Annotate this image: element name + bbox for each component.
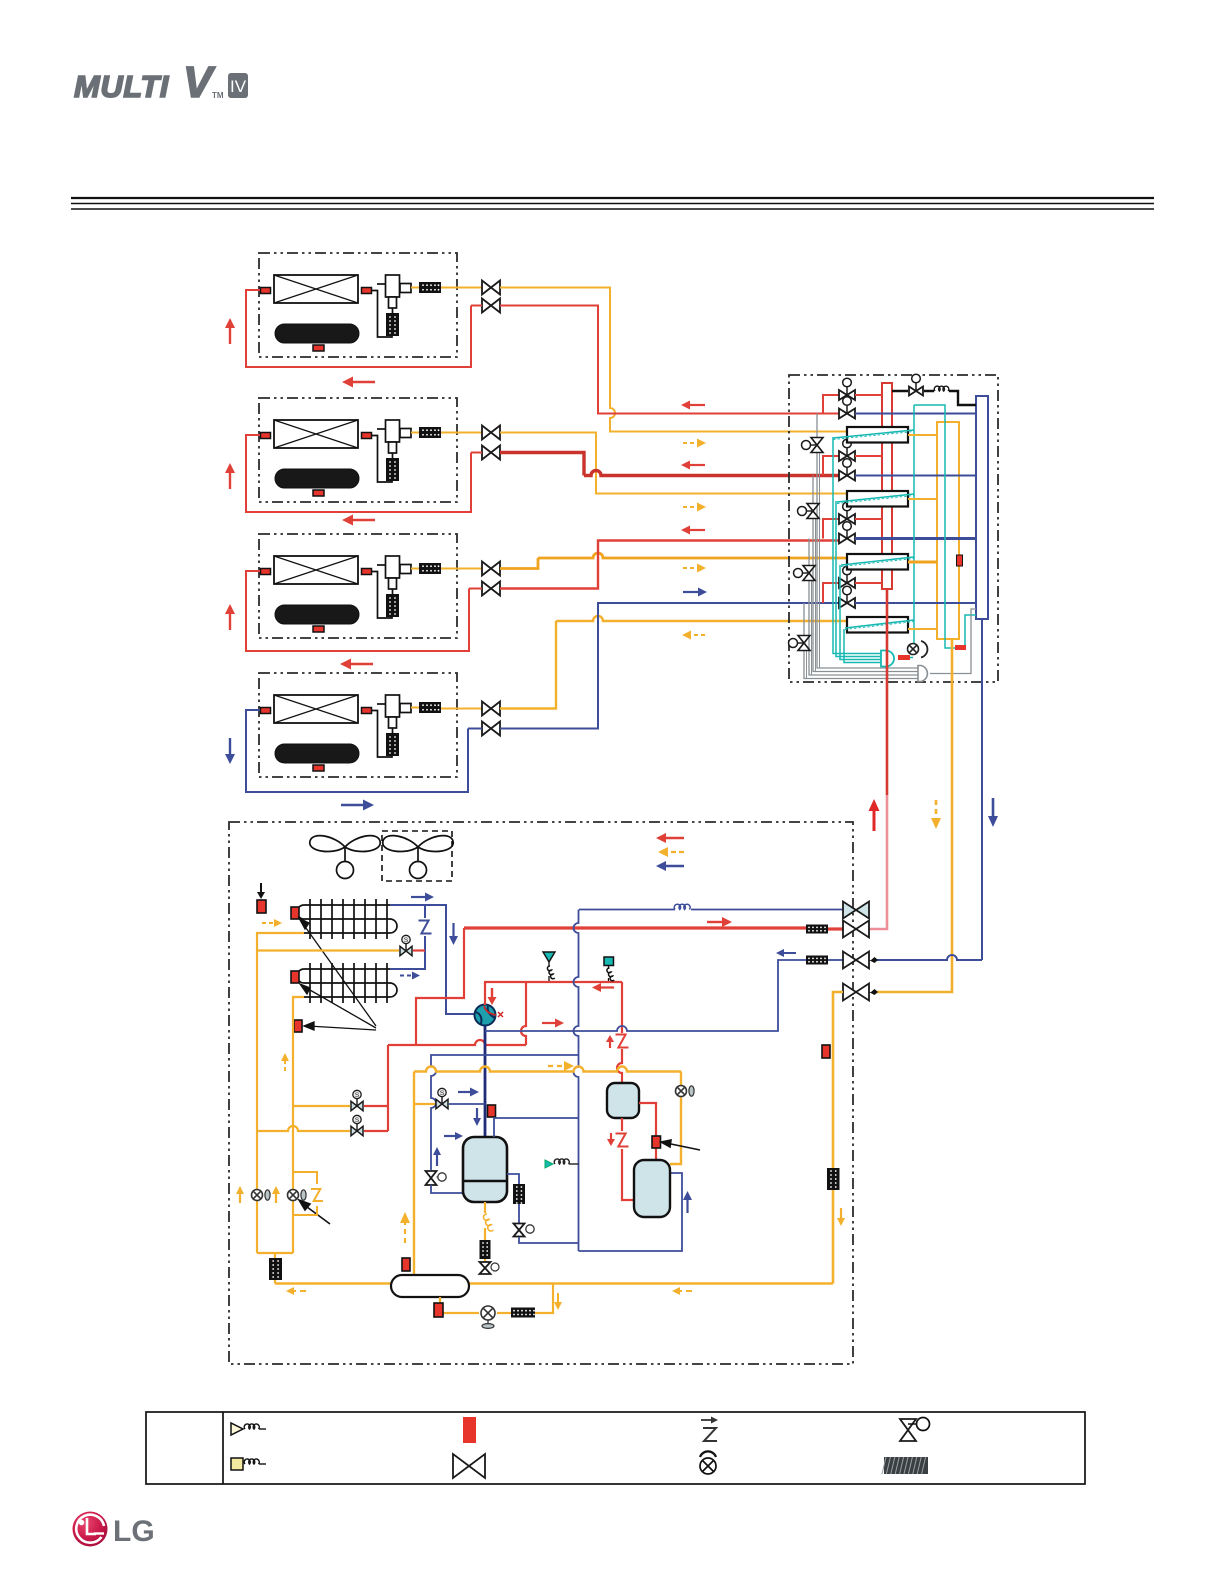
liquid trunk (yellow header rect) bbox=[937, 422, 959, 639]
HR branch 2 pipe valve to red trunk bbox=[855, 455, 882, 457]
flow arrow red left (line1) bbox=[681, 401, 705, 410]
oil separator (horizontal tank) bbox=[391, 1275, 469, 1297]
unit4 flow arrow down bbox=[225, 738, 235, 764]
suction pipe 4way to compressor bbox=[484, 1026, 487, 1138]
unit1 liquid service valve bbox=[482, 281, 500, 295]
navy bottom run to right tank bbox=[579, 1173, 683, 1251]
unit3 flow arrow up bbox=[225, 604, 235, 630]
HR top motor valve on black pipe bbox=[909, 374, 923, 395]
sensor at coil upper bbox=[291, 907, 299, 919]
yellow trunk drop to outdoor service valve bbox=[875, 639, 952, 992]
unit1 gas pipe (red) left loop bbox=[246, 290, 471, 367]
unit4 gas service valve bbox=[482, 722, 500, 736]
HR subcool HX 3 teal refrigerant path bbox=[841, 557, 914, 565]
orange riser right to subcool tank bbox=[670, 1072, 681, 1165]
flow arrow blue right above coil bbox=[411, 893, 434, 902]
low pressure trunk (navy header rect) bbox=[976, 396, 988, 619]
flow arrow orange down on drop bbox=[837, 1208, 845, 1226]
svg-text:S: S bbox=[440, 1090, 445, 1097]
strainer on navy service line bbox=[806, 956, 828, 965]
legend arrow navy (heating cycle) bbox=[656, 861, 684, 871]
HR branch 3 red stub to high-pressure valve bbox=[823, 519, 839, 539]
flow arrow navy right above solenoid bbox=[458, 1088, 479, 1097]
legend heater hatched block bbox=[882, 1457, 928, 1474]
strainer on compressor right line bbox=[513, 1184, 525, 1204]
oil separator bottom loop bbox=[440, 1284, 553, 1314]
unit2 flow arrow up bbox=[225, 463, 235, 489]
unit2 gas service valve bbox=[482, 446, 500, 460]
oil solenoid valve lower bbox=[257, 1126, 350, 1131]
triple horizontal rule bbox=[71, 198, 1154, 209]
capillary Z line to coil lower bbox=[390, 905, 425, 969]
unit2 gas pipe valve to HR (thick) bbox=[500, 453, 839, 476]
HR branch 3 high pressure switching valve bbox=[839, 502, 855, 524]
leader arrow to column B port bbox=[299, 1200, 330, 1224]
service port on column A bbox=[252, 1190, 263, 1201]
outdoor fan 1 bbox=[310, 836, 380, 879]
red branch vertical with jump bbox=[521, 982, 526, 1045]
legend check valve with capillary bbox=[231, 1423, 243, 1435]
service port on orange riser bbox=[676, 1086, 687, 1097]
red trunk flow arrow up bbox=[869, 799, 880, 831]
strainer under receiver columns bbox=[274, 1253, 276, 1258]
red trunk drop to outdoor service valve bbox=[886, 589, 889, 795]
navy pipe coil upper to four-way valve bbox=[390, 905, 475, 1014]
red discharge header pipes bbox=[416, 928, 464, 1045]
service valve yellow liquid bbox=[843, 984, 869, 1001]
HR branch 4 red stub to high-pressure valve bbox=[823, 583, 839, 603]
HR branch 1 red stub to high-pressure valve bbox=[823, 395, 839, 414]
oil equalize navy line upper with coil bbox=[579, 909, 843, 911]
HR branch 1 pipe valve to red trunk bbox=[855, 394, 882, 396]
unit1 flow arrow left bbox=[342, 377, 375, 388]
sensor on yellow drop bbox=[822, 1045, 830, 1058]
legend capillary Z with arrow bbox=[701, 1417, 718, 1424]
high pressure trunk (red header rect) bbox=[882, 383, 892, 589]
HR branch 4 pipe valve to red trunk bbox=[855, 582, 882, 584]
unit1 gas service valve bbox=[482, 299, 500, 313]
HR branch 1 gray control drop line bbox=[817, 414, 918, 669]
legend arrow red (cooling cycle) bbox=[656, 833, 684, 843]
outdoor air temp sensor bbox=[257, 900, 266, 913]
flow arrow red right to HR bbox=[707, 917, 732, 927]
strainer on bottom loop bbox=[511, 1308, 535, 1318]
indoor unit 4 (fan coil unit) bbox=[259, 673, 457, 777]
IV badge bbox=[228, 73, 248, 98]
HR branch 2 low pressure switching valve bbox=[839, 459, 855, 481]
legend valve bowtie bbox=[453, 1454, 485, 1478]
HR branch 4 control valve bbox=[789, 636, 811, 651]
HR branch 4 pipe valve to navy trunk bbox=[855, 602, 976, 604]
yellow pipes HX to liquid trunk bbox=[908, 435, 937, 629]
air flow arrow black down bbox=[257, 883, 265, 899]
sensor near liquid header bbox=[294, 1020, 302, 1032]
yellow trunk flow arrow down (dashed) bbox=[931, 800, 941, 829]
coil on black pipe bbox=[934, 386, 949, 391]
compressor bbox=[463, 1137, 507, 1202]
red drop to oil solenoids bbox=[387, 1045, 389, 1131]
flow arrow red up at Z bbox=[606, 1035, 614, 1048]
flow arrow navy down on suction bbox=[473, 1108, 481, 1126]
unit1 liquid pipe valve to HR bbox=[500, 288, 847, 432]
legend fan circle-x with cap bbox=[700, 1451, 716, 1457]
compressor oil drain with coil strainer valve bbox=[484, 1202, 486, 1213]
flow arrow blue dashed right below bbox=[400, 972, 420, 980]
HR branch 2 high pressure switching valve bbox=[839, 439, 855, 461]
unit4 flow arrow right bbox=[341, 800, 374, 811]
liquid receiver header left (yellow column B) bbox=[257, 997, 304, 1253]
yellow thick pipe HX3 to liquid trunk bbox=[908, 561, 937, 564]
flow arrow navy up right of tank bbox=[683, 1191, 692, 1213]
injection solenoid valve to compressor bbox=[414, 1103, 435, 1105]
gray gate output to navy trunk bbox=[930, 609, 976, 674]
unit1 liquid pipe (yellow) to HR unit bbox=[441, 287, 482, 289]
indoor unit 3 (fan coil unit) bbox=[259, 534, 457, 638]
four-way valve bbox=[475, 1005, 504, 1026]
dashed orange arrow up beside drop bbox=[400, 1212, 410, 1243]
HR branch 3 gray control drop line bbox=[809, 539, 918, 676]
high pressure sensor (triangle) on discharge bbox=[543, 952, 555, 966]
sensor on teal output bbox=[898, 655, 910, 660]
sensor at separator bottom bbox=[434, 1303, 443, 1317]
unit3 gas service valve bbox=[482, 582, 500, 596]
sensor on yellow trunk bbox=[957, 555, 963, 566]
relief bypass with Z on column B bbox=[293, 1172, 317, 1215]
flow arrow orange down at manifold tee bbox=[554, 1293, 562, 1310]
subcool plate HX (upper small tank) bbox=[607, 1083, 639, 1118]
HR branch 4 high pressure switching valve bbox=[839, 566, 855, 588]
liquid receiver header left (yellow column A) bbox=[257, 933, 304, 1253]
HR subcool HX 2 teal refrigerant path bbox=[837, 494, 914, 502]
compressor right oil circuit bbox=[507, 1174, 519, 1184]
orange liquid main horizontal bbox=[414, 1067, 681, 1072]
main red pipe to service valve bbox=[464, 926, 806, 929]
yellow pipe valve left drop to manifold bbox=[833, 992, 843, 1284]
strainer on red service line bbox=[806, 925, 828, 934]
defrost solenoid valve bbox=[400, 935, 412, 955]
svg-text:MULTI: MULTI bbox=[74, 69, 170, 104]
legend strainer square with capillary bbox=[231, 1458, 243, 1470]
flow arrow red left (line2) bbox=[681, 461, 705, 470]
svg-text:S: S bbox=[355, 1117, 360, 1124]
legend box bbox=[146, 1412, 1085, 1484]
HR branch 1 low pressure switching valve bbox=[839, 397, 855, 419]
legend arrow orange dashed bbox=[658, 847, 684, 857]
unit1 flow arrow up bbox=[225, 318, 235, 344]
unit4 liquid service valve bbox=[482, 702, 500, 716]
red pipe plate HX right to receiver bbox=[639, 1103, 656, 1160]
gray control bus AND gate bbox=[918, 666, 927, 682]
flow arrow red down above 4way bbox=[488, 988, 497, 1005]
dashed orange arrow up beside column B bbox=[281, 1053, 289, 1071]
teal right header risers bbox=[913, 405, 915, 643]
svg-text:TM: TM bbox=[212, 91, 224, 100]
orange drop to oil separator bbox=[413, 1072, 415, 1278]
indoor unit 2 (fan coil unit) bbox=[259, 398, 457, 502]
sensor on teal bottom line bbox=[955, 645, 966, 650]
navy branch to accumulator circuit bbox=[431, 1055, 579, 1170]
red pipe plate HX bottom with Z bbox=[622, 1118, 634, 1200]
receiver tank (right) bbox=[634, 1160, 670, 1217]
unit1 gas pipe valve to HR bbox=[500, 306, 839, 414]
service valve liquid-gas (light blue filled) bbox=[843, 902, 869, 919]
service valve red line bbox=[843, 921, 869, 938]
black pipe red trunk to navy trunk with valve and coil bbox=[892, 391, 976, 405]
HR branch 4 low pressure switching valve bbox=[839, 586, 855, 608]
navy vertical main left header bbox=[574, 910, 579, 1252]
HR branch 3 pipe valve to red trunk bbox=[855, 518, 882, 520]
indoor unit 1 (fan coil unit) bbox=[259, 253, 457, 357]
HR branch 2 pipe valve to navy trunk bbox=[855, 475, 976, 477]
unit3 flow arrow left bbox=[340, 659, 373, 670]
HR branch 1 pipe valve to navy trunk bbox=[855, 413, 976, 415]
HR branch 2 red stub to high-pressure valve bbox=[823, 456, 839, 476]
bottom yellow oil return manifold bbox=[275, 1282, 833, 1284]
flow arrow navy left near service valve bbox=[776, 949, 796, 957]
teal junction gate bbox=[881, 651, 894, 667]
HR branch 3 control valve bbox=[794, 566, 816, 581]
flow arrow blue right (line4) bbox=[683, 588, 707, 597]
legend valve with circle bbox=[900, 1419, 916, 1441]
flow arrow red down at Z2 bbox=[607, 1133, 615, 1146]
HR branch 1 high pressure switching valve bbox=[839, 378, 855, 400]
outdoor heat exchanger coil upper bbox=[297, 899, 397, 939]
outdoor unit dash-dot enclosure bbox=[229, 822, 853, 1364]
teal capillary risers to AND junction bbox=[833, 437, 881, 663]
suction line sensor bbox=[488, 1105, 496, 1117]
unit3 gas pipe valve to HR bbox=[500, 541, 839, 589]
HR branch 2 control valve bbox=[798, 504, 820, 519]
red pipe to subcool circuit with Z bbox=[617, 982, 622, 1083]
navy trunk flow arrow down bbox=[988, 798, 998, 827]
outdoor fan 2 (optional, dashed box) bbox=[382, 831, 452, 881]
HR subcool HX 1 teal refrigerant path bbox=[833, 430, 914, 438]
HR branch 1 control valve bbox=[802, 438, 824, 453]
oil drain valve circle-x bbox=[481, 1306, 495, 1320]
sensor on orange drop bbox=[402, 1258, 410, 1271]
legend sensor red rect bbox=[463, 1417, 476, 1443]
service port on column B bbox=[288, 1190, 299, 1201]
HR subcool heat exchanger 3 bbox=[847, 554, 908, 570]
navy trunk drop to outdoor service valve bbox=[875, 619, 982, 960]
HR subcool heat exchanger 2 bbox=[847, 491, 908, 507]
unit3 liquid service valve bbox=[482, 562, 500, 576]
HR branch 3 low pressure switching valve bbox=[839, 522, 855, 544]
compressor top navy line to right header bbox=[494, 1118, 579, 1137]
flow arrow yellow dotted right (line2) bbox=[683, 503, 706, 512]
yellow pipe to defrost solenoid bbox=[257, 949, 399, 951]
flow arrow red right bbox=[542, 1019, 564, 1028]
HR branch 3 pipe valve to navy trunk bbox=[855, 537, 976, 540]
outdoor heat exchanger coil lower bbox=[297, 963, 397, 1003]
flow arrow red left on discharge bbox=[592, 983, 614, 992]
unit4 gas pipe valve to HR bbox=[500, 603, 839, 729]
HR branch 4 gray control drop line bbox=[804, 603, 918, 679]
unit4 gas pipe (navy) left loop bbox=[246, 710, 468, 792]
low pressure navy pipe to service valve bbox=[485, 960, 806, 1031]
flow arrow yellow dotted right (line1) bbox=[683, 439, 706, 448]
svg-text:LG: LG bbox=[113, 1515, 155, 1548]
flow arrow yellow dotted right (line3) bbox=[683, 564, 706, 573]
HR unit dash-dot enclosure bbox=[789, 375, 998, 682]
flow arrows at compressor inlet bbox=[444, 1132, 463, 1140]
flow arrow red left (line3) bbox=[681, 526, 705, 535]
yellow dashed arrow right bbox=[262, 919, 282, 927]
oil return valve on navy branch bbox=[426, 1171, 437, 1185]
pressure switch (square) on discharge bbox=[604, 957, 614, 969]
MULTI V logo text bbox=[74, 58, 224, 107]
leader arrows to sensors bbox=[299, 918, 376, 1030]
unit4 liquid pipe (yellow) to HR unit bbox=[441, 708, 482, 710]
HR subcool heat exchanger 1 bbox=[847, 427, 908, 443]
orange arrows up at columns bbox=[236, 1186, 244, 1203]
oil solenoid valve upper bbox=[293, 1105, 350, 1107]
leader arrow to receiver sensor bbox=[661, 1140, 700, 1150]
strainer on yellow drop bbox=[827, 1168, 840, 1190]
coil on navy line bbox=[674, 904, 690, 909]
sensor at coil lower bbox=[291, 971, 299, 983]
dashed orange arrow right bbox=[548, 1061, 574, 1071]
HR subcool heat exchanger 4 bbox=[847, 617, 908, 633]
unit3 gas pipe (red) left loop bbox=[246, 571, 469, 651]
sensor on receiver inlet bbox=[652, 1136, 661, 1148]
HR branch 2 gray control drop line bbox=[813, 476, 918, 672]
valve on compressor right line bbox=[514, 1224, 525, 1237]
red stub solenoid to Z line bbox=[413, 949, 425, 951]
flow arrow orange dotted left (line4) bbox=[682, 631, 705, 640]
svg-text:IV: IV bbox=[230, 77, 247, 96]
svg-text:S: S bbox=[404, 937, 409, 944]
unit2 gas pipe (red) left loop bbox=[246, 435, 471, 512]
check valve and capillary symbol bbox=[545, 1160, 553, 1168]
service valve navy suction bbox=[843, 952, 869, 969]
unit2 liquid pipe (yellow) to HR unit bbox=[441, 432, 482, 434]
flow arrow blue down bbox=[449, 923, 458, 945]
HR subcool HX 4 teal refrigerant path bbox=[845, 620, 914, 628]
unit2 flow arrow left bbox=[342, 515, 375, 526]
flow arrow orange left on manifold bbox=[286, 1287, 306, 1295]
svg-text:S: S bbox=[355, 1092, 360, 1099]
unit2 liquid service valve bbox=[482, 426, 500, 440]
red pipe with jumps over suction bbox=[388, 1040, 526, 1045]
HR fan motor symbol bbox=[908, 644, 919, 655]
unit3 liquid pipe (yellow) to HR unit bbox=[441, 568, 482, 570]
